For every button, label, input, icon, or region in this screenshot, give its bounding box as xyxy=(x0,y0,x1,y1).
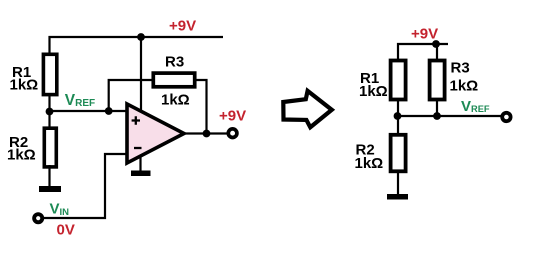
resistor R2 xyxy=(44,128,56,167)
node junction VREF branch xyxy=(105,107,113,115)
node VREF junction under R1 xyxy=(46,108,54,116)
svg-text:0V: 0V xyxy=(57,222,75,239)
svg-text:1kΩ: 1kΩ xyxy=(7,146,36,163)
svg-text:+9V: +9V xyxy=(411,26,438,43)
node output junction xyxy=(203,130,211,138)
svg-text:R3: R3 xyxy=(165,54,184,71)
node junction on rail xyxy=(137,33,145,41)
wire rail drop to op-amp V+ xyxy=(140,37,142,110)
op-amp U1 xyxy=(127,104,184,163)
terminal output +9V xyxy=(228,129,237,138)
wire R2 bottom stub xyxy=(48,165,50,187)
wire R2 right bottom stub xyxy=(397,170,399,195)
op-amp plus input symbol xyxy=(132,116,140,124)
wire R1 right bottom stub xyxy=(397,99,399,117)
wire minus input xyxy=(43,154,127,218)
terminal VIN xyxy=(34,214,42,222)
node junction top right xyxy=(432,40,440,48)
svg-text:1kΩ: 1kΩ xyxy=(355,155,384,172)
svg-text:+9V: +9V xyxy=(219,108,246,125)
resistor R3 right xyxy=(430,61,445,100)
ground below op-amp xyxy=(131,171,151,177)
svg-text:R3: R3 xyxy=(451,60,470,77)
wire op-amp ground stub xyxy=(139,155,141,171)
resistor R2 right xyxy=(391,135,406,172)
wire R3 right bottom stub xyxy=(436,99,438,117)
wire bottom junction to VREF terminal xyxy=(398,115,501,117)
wire R2 top stub xyxy=(48,111,50,127)
wire +9V rail left circuit xyxy=(49,36,224,38)
node junction under R1 right xyxy=(394,112,402,120)
resistor R1 right xyxy=(391,61,406,100)
svg-text:1kΩ: 1kΩ xyxy=(161,92,190,109)
resistor R3 xyxy=(153,73,194,87)
svg-text:1kΩ: 1kΩ xyxy=(450,78,479,95)
wire top rail right circuit xyxy=(398,44,448,59)
wire R2 right top stub xyxy=(397,116,399,134)
svg-text:+9V: +9V xyxy=(169,18,196,35)
wire VREF to op-amp + input xyxy=(50,110,128,112)
wire R1 top stub xyxy=(48,36,50,54)
wire op-amp output xyxy=(184,132,228,134)
svg-text:1kΩ: 1kΩ xyxy=(359,83,388,100)
terminal VREF xyxy=(502,113,510,121)
ground below R2 right xyxy=(387,194,408,200)
wire R3b top stub xyxy=(436,44,438,60)
op-amp minus input symbol xyxy=(134,147,142,149)
wire R1 bottom stub xyxy=(48,94,50,112)
arrow between circuits xyxy=(283,91,332,127)
svg-text:1kΩ: 1kΩ xyxy=(10,77,39,94)
wire branch up to R3 left xyxy=(109,80,154,111)
ground below R2 xyxy=(39,186,61,192)
node junction under R3 right xyxy=(433,112,441,120)
wire R3 right to output xyxy=(196,80,207,134)
resistor R1 xyxy=(43,54,56,94)
